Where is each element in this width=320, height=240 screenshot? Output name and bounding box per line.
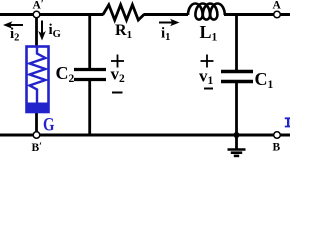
wire top-middle segment [144, 13, 189, 16]
current arrow iG [38, 21, 61, 41]
capacitor C1 [221, 69, 274, 91]
svg-text:i2: i2 [10, 26, 19, 44]
Gunn diode G (blue box with zigzag) [27, 47, 55, 136]
blue partial letter at right edge [285, 117, 290, 127]
wire diode G to B' [35, 112, 38, 135]
inductor L1 [188, 3, 225, 43]
resistor R1 [103, 5, 144, 41]
wire C1 top stub [235, 15, 238, 72]
wire bottom segment [0, 134, 290, 137]
svg-text:A′: A′ [33, 0, 44, 12]
node B' [32, 132, 43, 154]
svg-text:R1: R1 [115, 22, 132, 41]
ground [228, 135, 246, 156]
current arrow i1 [159, 19, 180, 43]
current arrow i2 [3, 21, 23, 43]
svg-text:v1: v1 [199, 67, 214, 88]
wire C1 bottom stub [235, 82, 238, 135]
wire C2 top stub [88, 15, 91, 70]
wire A' to diode G [35, 15, 38, 48]
svg-text:v2: v2 [111, 65, 126, 86]
svg-text:iG: iG [49, 22, 61, 40]
svg-text:C2: C2 [56, 63, 75, 85]
wire top-right segment [224, 13, 290, 16]
wire C2 bottom stub [88, 80, 91, 135]
svg-text:i1: i1 [161, 26, 170, 44]
label v2 with polarity [111, 55, 126, 93]
node A' [33, 0, 44, 18]
label v1 with polarity [199, 55, 214, 89]
node B [273, 132, 281, 154]
junction at C1/bottom wire [234, 132, 240, 138]
svg-text:C1: C1 [255, 69, 274, 91]
svg-text:A: A [273, 0, 282, 12]
svg-text:B′: B′ [32, 142, 43, 155]
capacitor C2 [56, 63, 107, 85]
node A [273, 0, 282, 18]
svg-text:L1: L1 [200, 22, 218, 44]
wire top-left segment [0, 13, 104, 16]
svg-text:B: B [273, 142, 281, 154]
svg-text:G: G [43, 116, 55, 136]
